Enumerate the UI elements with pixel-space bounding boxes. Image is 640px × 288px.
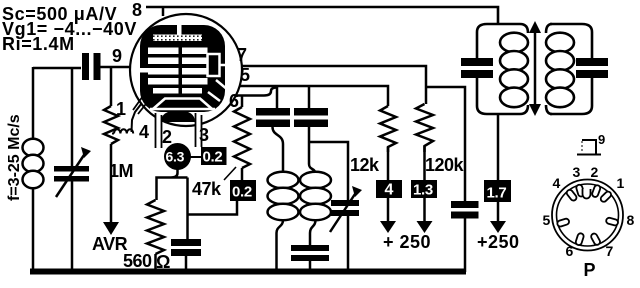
output transformer right cap	[576, 58, 608, 78]
wire padder cap to bus	[309, 261, 312, 271]
wire pin1 lead to squiggle	[132, 99, 146, 132]
output IF transformer left loop frame	[477, 24, 520, 114]
wire 47k to 0.2 box2	[241, 168, 244, 181]
capacitor box 0.2 heater	[201, 147, 227, 166]
svg-text:0.2: 0.2	[203, 149, 223, 166]
resistor 560	[147, 200, 164, 254]
socket pin slots	[557, 184, 619, 246]
AVR arrowhead	[103, 222, 119, 235]
output transformer primary coil	[500, 33, 528, 108]
grid squiggle pin 4 connection	[112, 129, 133, 133]
arrowhead supply right	[417, 221, 433, 233]
pin 2 lead channel	[156, 112, 162, 148]
svg-text:4: 4	[385, 182, 394, 199]
wire tuning cap branch lower	[71, 181, 74, 272]
arrowhead supply output	[490, 221, 506, 233]
svg-text:8: 8	[132, 0, 142, 20]
tube internal white details	[139, 25, 232, 109]
wire pin7 screen line	[242, 66, 426, 104]
coupling adjustment double arrow	[529, 21, 541, 116]
svg-text:6: 6	[566, 243, 574, 259]
IF primary coil	[268, 172, 299, 220]
svg-text:5: 5	[543, 212, 551, 228]
svg-text:6.3: 6.3	[166, 149, 185, 165]
svg-text:f=3-25 Mc/s: f=3-25 Mc/s	[6, 114, 23, 201]
svg-text:8: 8	[627, 212, 635, 228]
label 47k with leader	[192, 167, 236, 199]
svg-text:7: 7	[237, 45, 247, 65]
IF transformer secondary capacitor	[294, 108, 328, 127]
svg-text:9: 9	[598, 132, 605, 147]
capacitor box 0.2 anode	[230, 180, 256, 201]
variable tuning capacitor C1	[54, 147, 91, 197]
svg-text:1.3: 1.3	[413, 182, 433, 199]
output transformer left cap	[461, 58, 493, 78]
svg-text:3: 3	[199, 125, 209, 145]
wire screen branch to reservoir cap	[426, 87, 465, 201]
wire pin6 to 47k	[236, 88, 277, 109]
socket pin labels	[543, 164, 635, 280]
variable oscillator capacitor	[330, 186, 362, 232]
svg-text:5: 5	[240, 65, 250, 85]
svg-text:4: 4	[139, 122, 149, 142]
pin 1 lead channel	[133, 96, 149, 114]
svg-text:560: 560	[123, 251, 152, 271]
resistor 120k	[416, 104, 433, 152]
coupling capacitor C2	[82, 53, 101, 80]
IF secondary coil	[300, 172, 331, 220]
wire grid leak branch	[110, 67, 113, 106]
wire box 1.7 to arrow	[497, 202, 500, 222]
socket pin 9 small slot	[583, 189, 591, 199]
wire tuning cap branch upper	[71, 67, 74, 166]
IF padder capacitor	[291, 245, 329, 261]
svg-text:1: 1	[617, 175, 625, 191]
wire osc tuning branch	[309, 142, 348, 200]
wire transformer to 1.7 box	[497, 114, 500, 180]
svg-text:9: 9	[112, 46, 122, 66]
wire anode cap to primary coil	[273, 127, 284, 172]
output transformer right coil connectors	[546, 24, 552, 114]
wire 0.2 box2 bottom link	[188, 201, 237, 215]
wire cathode bypass branch	[186, 178, 189, 240]
antenna coil L1	[23, 139, 44, 189]
capacitor cathode bypass	[171, 239, 201, 256]
wire coupling cap to tube pin 9	[100, 66, 131, 69]
svg-text:+ 250: + 250	[383, 232, 431, 252]
svg-text:P: P	[584, 260, 596, 280]
wire box 4 to arrow	[387, 198, 390, 222]
svg-text:Ri=1.4M: Ri=1.4M	[2, 34, 75, 54]
ground bus	[30, 269, 466, 275]
wire 6.3 to 0.2 box	[190, 156, 202, 158]
output transformer secondary coil	[546, 33, 574, 108]
pin 3 lead channel	[196, 112, 202, 147]
wire reservoir cap to bus	[464, 219, 467, 273]
wire 1M to AVR arrow	[110, 144, 113, 223]
pin 8 lead	[162, 7, 165, 16]
tube electrode blob	[140, 25, 225, 112]
tube envelope	[130, 14, 242, 126]
wire primary coil to bus	[277, 220, 284, 271]
svg-text:6: 6	[229, 91, 239, 111]
wire left vertical antenna branch lower	[32, 188, 35, 272]
top cap connection symbol 9	[577, 132, 605, 155]
wire secondary cap down	[309, 127, 316, 174]
wire box 1.3 to arrow	[423, 198, 426, 222]
svg-text:2: 2	[162, 127, 172, 147]
wire top B+ line pin8 to output transformer	[146, 7, 498, 25]
svg-text:4: 4	[553, 175, 561, 191]
tube parameter text block	[2, 4, 137, 54]
tube socket outline	[552, 180, 623, 251]
output transformer left coil connectors	[520, 24, 528, 114]
heater indicator 6.3	[164, 143, 191, 170]
wire 120k to box 1.3	[423, 146, 426, 180]
wire osc cap branch	[308, 86, 311, 108]
wire bypass cap to bus	[185, 256, 188, 271]
arrowhead supply left	[380, 221, 396, 233]
wire pin5 line	[240, 86, 388, 106]
svg-text:47k: 47k	[192, 179, 222, 199]
resistor 1M	[104, 106, 118, 144]
wire osc cap to bus	[347, 216, 350, 271]
IF transformer primary capacitor	[256, 108, 290, 127]
resistor box 1.7	[484, 180, 511, 202]
wire cathode junction	[157, 169, 188, 200]
svg-text:12k: 12k	[350, 155, 380, 175]
svg-text:0.2: 0.2	[232, 184, 252, 201]
svg-text:7: 7	[606, 243, 614, 259]
resistor box 1.3	[411, 180, 437, 199]
reservoir capacitor	[451, 201, 479, 219]
svg-text:1: 1	[116, 99, 126, 119]
tube cathode dome	[161, 111, 195, 123]
svg-text:1.7: 1.7	[487, 185, 507, 202]
svg-text:1M: 1M	[109, 161, 133, 181]
wire 560 to bus	[154, 254, 157, 271]
svg-text:+250: +250	[477, 232, 520, 252]
svg-text:2: 2	[591, 164, 599, 180]
wire secondary coil to padder cap	[310, 220, 316, 245]
svg-text:120k: 120k	[425, 155, 465, 175]
svg-text:3: 3	[573, 164, 581, 180]
resistor box 4	[376, 180, 402, 199]
wire left vertical antenna branch upper	[32, 67, 35, 139]
output IF transformer right loop frame	[550, 24, 592, 114]
resistor 47k	[234, 107, 250, 168]
wire top grid line from corner to coupling cap	[33, 67, 81, 70]
wire 12k to box 4	[387, 147, 390, 180]
resistor 12k	[380, 106, 396, 152]
